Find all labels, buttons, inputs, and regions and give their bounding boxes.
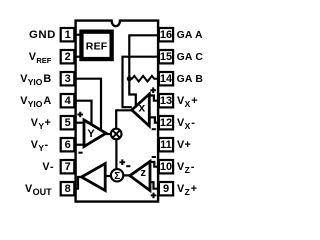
- resistor between GA A node and pin 14 GA B: [129, 76, 158, 82]
- svg-text:15: 15: [160, 51, 172, 63]
- svg-text:GND: GND: [29, 29, 56, 41]
- pin 11 box: [159, 138, 173, 151]
- wire pin15 GA C down to X amp output: [123, 57, 159, 107]
- svg-text:4: 4: [65, 95, 72, 107]
- plus marker Y amp: [77, 112, 83, 118]
- plus marker Z amp: [151, 193, 157, 199]
- svg-text:z: z: [140, 167, 146, 179]
- wire multiplier down to summer: [115, 139, 117, 170]
- op-amp X input buffer: [132, 94, 150, 126]
- svg-text:REF: REF: [86, 41, 108, 53]
- op-amp Z input buffer: [130, 162, 150, 191]
- svg-text:2: 2: [65, 51, 71, 63]
- IC body U1 with pin-1 notch: [76, 21, 159, 202]
- wire summer to output op-amp: [105, 175, 111, 177]
- pin 12 box: [159, 116, 173, 129]
- svg-text:Σ: Σ: [114, 171, 120, 182]
- op-amp output buffer: [82, 164, 106, 191]
- svg-text:3: 3: [65, 73, 71, 85]
- voltage reference block REF: [79, 30, 114, 62]
- pin 1 box: [61, 28, 75, 41]
- plus marker summer: [120, 159, 126, 165]
- multiplier node (circle with cross): [111, 129, 122, 140]
- pin 2 box: [61, 50, 75, 63]
- wire pin3 VYIOB to Y amp: [76, 79, 101, 131]
- pin 3 box: [61, 72, 75, 85]
- wire pin10 VZ- to Z amp - input: [151, 162, 158, 167]
- svg-text:6: 6: [65, 139, 71, 151]
- pin 5 box: [61, 116, 75, 129]
- pin 13 box: [159, 94, 173, 107]
- svg-text:GA C: GA C: [177, 52, 204, 63]
- minus marker Y amp: [78, 152, 82, 154]
- minus marker Z amp: [152, 156, 156, 158]
- svg-text:1: 1: [65, 29, 71, 41]
- svg-text:8: 8: [65, 183, 71, 195]
- wire pin16 GA A down to X amp: [129, 35, 158, 106]
- minus marker X amp: [152, 128, 156, 130]
- op-amp Y input buffer: [84, 120, 106, 147]
- wire output buffer to pin8 VOUT: [76, 177, 82, 189]
- plus marker X amp: [150, 87, 156, 93]
- svg-text:V+: V+: [177, 139, 191, 151]
- svg-text:10: 10: [160, 161, 172, 173]
- svg-text:14: 14: [160, 73, 173, 85]
- wire pin12 VX- to X amp - input: [150, 117, 158, 122]
- pin 8 box: [61, 182, 75, 195]
- svg-text:GA A: GA A: [177, 30, 203, 41]
- pin 10 box: [159, 160, 173, 173]
- wire pin5 VY+ to Y amp + input: [76, 122, 85, 124]
- wire Y amp output to multiplier: [106, 133, 111, 135]
- svg-text:GA B: GA B: [177, 74, 204, 85]
- minus marker summer: [126, 165, 130, 167]
- svg-text:Y: Y: [87, 128, 95, 140]
- wire X amp output down to multiplier top: [116, 110, 132, 128]
- wire pin9 VZ+ to Z amp + input: [151, 182, 158, 189]
- svg-text:5: 5: [65, 117, 71, 129]
- svg-text:11: 11: [160, 139, 172, 151]
- svg-text:9: 9: [163, 183, 169, 195]
- svg-text:V-: V-: [42, 161, 54, 173]
- wire pin2 VREF to REF block: [76, 56, 80, 58]
- pin 16 box: [159, 28, 173, 41]
- wire pin13 VX+ to X amp + input: [150, 96, 158, 101]
- pin 7 box: [61, 160, 75, 173]
- svg-text:x: x: [138, 101, 145, 115]
- wire pin1 GND to REF block: [76, 34, 80, 36]
- junction dot node GA A: [127, 76, 132, 81]
- pin 9 box: [159, 182, 173, 195]
- pin 4 box: [61, 94, 75, 107]
- wire summer to Z amp: [123, 174, 130, 176]
- svg-text:16: 16: [160, 29, 172, 41]
- summer node (circle with sigma): [111, 169, 123, 182]
- pin 14 box: [159, 72, 173, 85]
- svg-text:12: 12: [160, 117, 172, 129]
- wire pin6 VY- to Y amp - input: [76, 144, 85, 146]
- pin 15 box: [159, 50, 173, 63]
- wire pin4 VYIOA to Y amp: [76, 101, 92, 125]
- pin 6 box: [61, 138, 75, 151]
- svg-text:13: 13: [160, 95, 172, 107]
- svg-text:7: 7: [65, 161, 71, 173]
